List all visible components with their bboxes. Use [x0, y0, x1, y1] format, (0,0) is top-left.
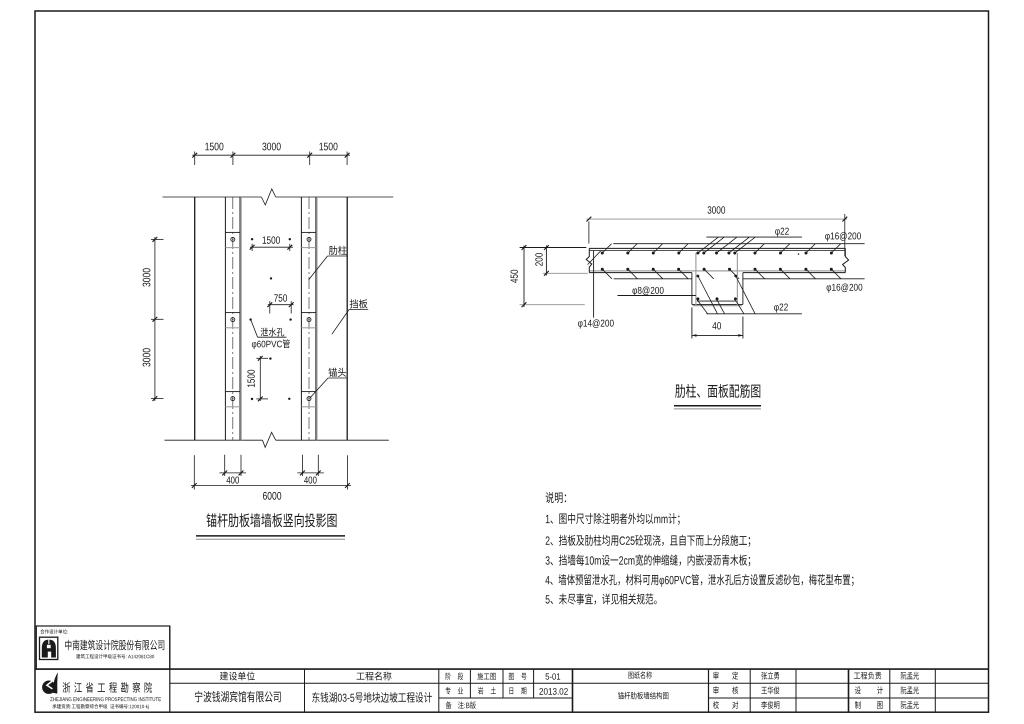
- cell stage value: [478, 673, 496, 680]
- inner dimension line 1500 between drain holes: [250, 244, 293, 251]
- cell drafter name: [901, 701, 919, 709]
- cell date label: [509, 687, 526, 694]
- label phi16at200 bottom: [827, 283, 863, 292]
- label phi16at200 top: [825, 232, 861, 241]
- anchor head circle and bearing plate lines (right column row 2): [301, 313, 316, 328]
- bottom 6000 dimension line: [191, 455, 351, 489]
- top dimension extension lines and ticks (1500,3000,1500): [192, 152, 350, 166]
- inner vertical dimension line 1500: [256, 356, 268, 401]
- wall right edge: [346, 197, 348, 440]
- rib column outline: [692, 273, 743, 305]
- slab top rebar line: [589, 250, 845, 252]
- Central-South design institute logo: [40, 637, 58, 659]
- top distribution bar line: [613, 243, 864, 245]
- 40 dimension line with arrows: [692, 308, 743, 339]
- label dangban (face slab) with leader: [332, 299, 368, 334]
- dimension text 3000 (top middle): [262, 143, 280, 151]
- dimension text 3000 (left upper, rotated): [143, 268, 151, 286]
- co-design unit label: [40, 629, 68, 634]
- Zhejiang institute english name: [50, 697, 161, 701]
- cell proofer name: [761, 701, 779, 709]
- dimension text 1500 (inner vertical, rotated): [247, 370, 254, 387]
- dimension text 3000 (left lower, rotated): [143, 348, 151, 366]
- Central-South design institute name: [65, 640, 164, 651]
- dimension text 400 (left): [226, 477, 239, 484]
- left drawing title anchored rib-slab wall elevation: [206, 513, 336, 527]
- Zhejiang institute name: [63, 682, 152, 693]
- slab right end with break: [843, 248, 849, 272]
- label phi60 PVC pipe: [252, 339, 290, 349]
- notes heading shuoming: [546, 492, 567, 503]
- construction unit name: [195, 691, 281, 702]
- header drawing name: [629, 671, 652, 678]
- header project name: [357, 672, 392, 681]
- drawing name value: [618, 692, 668, 699]
- anchor head circle and bearing plate lines (right column row 1): [301, 232, 316, 247]
- rib bottom rebar dots: [696, 297, 737, 300]
- cell figno value: [546, 673, 561, 679]
- slab top rebar 45-degree ticks: [602, 244, 840, 253]
- cell checker name: [761, 686, 779, 694]
- anchor head circle and bearing plate lines (right column row 3): [301, 392, 316, 407]
- label phi14at200: [578, 251, 614, 329]
- label drain hole with leader: [251, 320, 287, 337]
- rib corner dots: [697, 275, 738, 278]
- cell approver name: [762, 672, 779, 680]
- slab top edge: [589, 247, 845, 249]
- rib bottom rebar line: [697, 300, 736, 302]
- bottom 400 dimension lines: [220, 455, 324, 476]
- cell designer label: [855, 686, 883, 694]
- slab top rebar dots: [601, 252, 833, 255]
- slab bottom edge segments: [589, 272, 845, 274]
- anchor head circle and bearing plate lines (left column row 2): [225, 313, 240, 328]
- dimension text 750: [274, 294, 287, 301]
- inner dimension line 750: [267, 301, 293, 313]
- slab bottom rebar dots: [601, 268, 833, 271]
- note line 2: [546, 535, 751, 547]
- Central-South certificate line: [76, 654, 154, 659]
- project name: [312, 692, 432, 703]
- label phi22 top: [706, 228, 802, 237]
- wall bottom edge with break: [165, 432, 389, 447]
- cell major value: [478, 687, 496, 694]
- cell figno label: [509, 673, 526, 680]
- right title underline: [674, 406, 761, 409]
- cell proofer label: [713, 701, 738, 709]
- Zhejiang certificate line: [52, 704, 148, 709]
- cell drafter label: [855, 701, 883, 709]
- slab bottom rebar 45-degree ticks: [602, 269, 841, 279]
- slab bottom rebar line (gray): [589, 270, 845, 272]
- rib stirrup (gray): [693, 253, 742, 306]
- cell checker label: [713, 686, 738, 694]
- label leizhu (rib column) with leader: [309, 246, 348, 280]
- rib column strip (left) vertical edges and axis: [225, 197, 241, 440]
- dimension text 6000: [263, 492, 281, 500]
- dimension text 40: [712, 322, 721, 329]
- 450 and 200 dimension lines: [520, 245, 588, 307]
- dimension text 450 (rotated): [510, 270, 517, 283]
- cell designer name: [901, 686, 919, 694]
- cell stage label: [446, 673, 463, 680]
- header construction unit: [220, 672, 255, 681]
- bottom distribution bar line: [614, 278, 865, 280]
- dimension text 1500 (inner): [263, 236, 280, 243]
- cell chief label: [854, 672, 881, 680]
- rib phi22 bottom ticks: [697, 276, 755, 314]
- note line 3: [546, 554, 751, 566]
- cell remark: [446, 701, 452, 708]
- title block grid lines: [35, 626, 989, 712]
- section 3000 dimension: [587, 214, 848, 256]
- drain hole dots (plum pattern): [249, 238, 291, 400]
- label phi8at200 stirrup: [618, 287, 696, 296]
- cell chief name: [901, 672, 919, 680]
- cell approver label: [713, 672, 738, 680]
- dimension text 3000 (section): [708, 206, 726, 213]
- note line 1: [546, 513, 680, 525]
- note line 5: [546, 593, 657, 604]
- Zhejiang institute logo: [42, 672, 58, 694]
- left vertical dimension line with ticks: [151, 237, 164, 401]
- dimension text 1500 (top left): [205, 143, 223, 151]
- left title underline: [196, 536, 345, 539]
- dimension text 200 (rotated): [535, 253, 542, 266]
- wall left edge: [194, 197, 196, 440]
- rib column strip (right) vertical edges and axis: [301, 197, 317, 440]
- anchor head circle and bearing plate lines (left column row 3): [225, 392, 240, 407]
- label phi22 bottom: [706, 304, 802, 314]
- phi22 top bar ticks at rib: [698, 237, 755, 253]
- dimension text 1500 (top right): [319, 143, 337, 151]
- anchor head circle and bearing plate lines (left column row 1): [225, 232, 240, 247]
- note line 4: [545, 574, 853, 587]
- cell major label: [446, 687, 464, 694]
- right drawing title rib column and face slab reinforcement: [675, 384, 760, 398]
- cell date value: [539, 688, 567, 695]
- co-design unit box: [36, 626, 170, 669]
- wall top edge with break: [163, 189, 394, 205]
- dimension text 400 (right): [304, 477, 317, 484]
- slab left end with break: [586, 248, 601, 272]
- label maotou (anchor head) with leader: [310, 368, 347, 398]
